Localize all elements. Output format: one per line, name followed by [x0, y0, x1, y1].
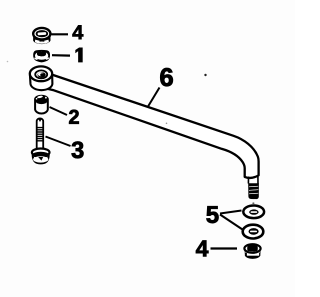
bolt 3	[32, 118, 50, 163]
link rod eyelet top face	[30, 66, 52, 81]
label 1	[76, 48, 83, 62]
leader line 3	[46, 137, 71, 147]
label 3	[72, 142, 84, 159]
stray dot C	[7, 61, 9, 63]
leader line 4 top	[52, 33, 69, 35]
label 5	[206, 206, 218, 223]
leader line 1	[52, 54, 70, 57]
rod end threaded stud	[248, 183, 259, 199]
eyelet inner ring	[35, 70, 47, 78]
leader line 5 to lower washer	[220, 215, 243, 230]
nut 1	[33, 50, 50, 63]
stud thread highlights	[249, 186, 258, 194]
label 2	[69, 110, 79, 124]
stud tip tick	[252, 203, 254, 204]
label 6	[160, 68, 172, 86]
stray dot B	[166, 123, 168, 125]
nut 4 (bottom-right)	[244, 244, 260, 259]
nut 4 (top-left)	[33, 28, 50, 44]
link rod eyelet boss lower	[30, 76, 52, 90]
leader line 2	[50, 107, 68, 115]
link rod 6 body	[44, 74, 259, 178]
bushing 2	[35, 95, 48, 113]
leader line 5 to upper washer	[220, 211, 242, 214]
eyelet hole	[38, 72, 46, 77]
leader line 6	[148, 88, 160, 107]
leader line 4 bottom	[211, 247, 238, 249]
washer 5 upper	[243, 206, 264, 220]
stray dot A	[204, 74, 206, 76]
label 4 (top)	[73, 25, 84, 39]
rod end neck	[248, 176, 258, 183]
label 4 (bottom)	[196, 240, 208, 256]
washer 5 lower	[243, 225, 264, 239]
